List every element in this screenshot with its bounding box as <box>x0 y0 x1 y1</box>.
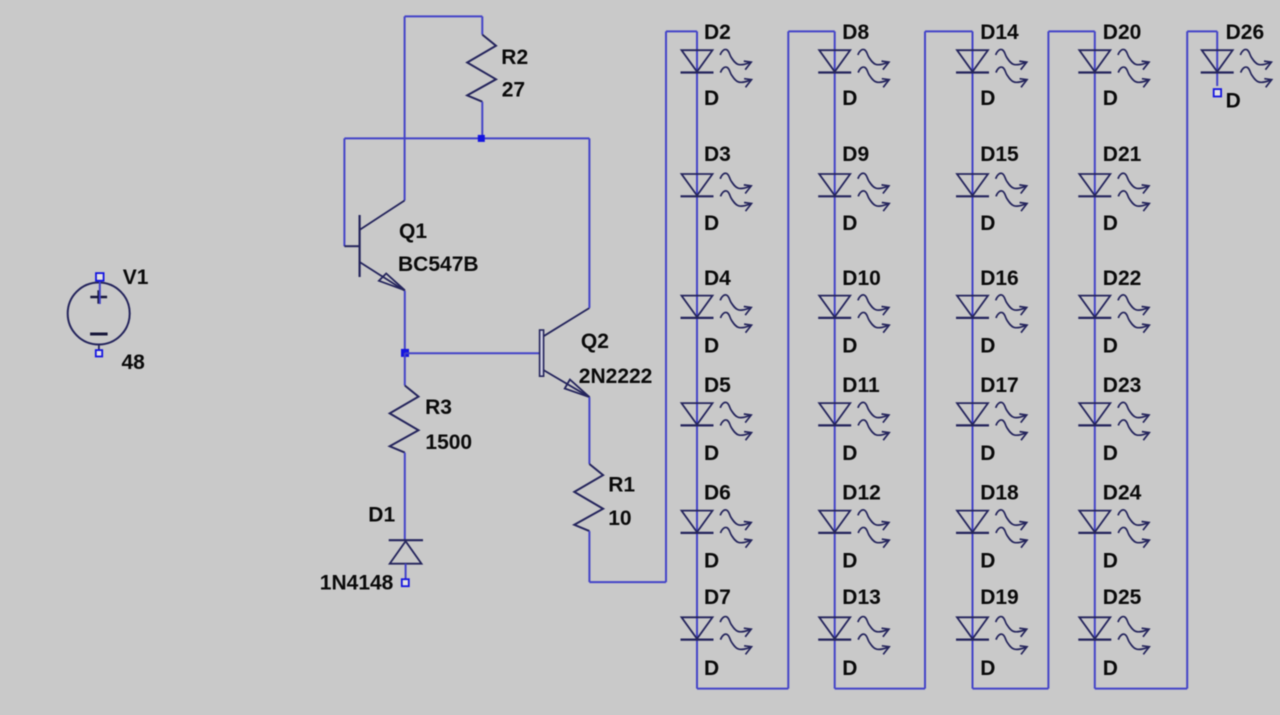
wire R3 to D1 <box>404 453 406 541</box>
svg-text:D: D <box>704 442 719 465</box>
LED D2 <box>681 49 752 87</box>
svg-text:D: D <box>842 212 857 235</box>
svg-text:D: D <box>704 657 719 680</box>
wire bottom column 1 to rail 2 <box>697 688 788 690</box>
LED D23 <box>1078 402 1149 440</box>
LED D22 <box>1078 295 1149 333</box>
wire Q2 collector riser <box>588 138 590 308</box>
terminal of D26 <box>1214 89 1221 96</box>
LED D13 <box>818 617 889 655</box>
junction at R2 bottom <box>478 135 485 142</box>
wire rail column 4 <box>1047 31 1049 688</box>
svg-text:D: D <box>704 87 719 110</box>
svg-text:D1: D1 <box>368 504 395 527</box>
svg-text:D21: D21 <box>1103 143 1142 166</box>
svg-text:Q2: Q2 <box>581 330 609 353</box>
svg-text:D20: D20 <box>1103 21 1142 44</box>
svg-text:10: 10 <box>608 507 631 530</box>
svg-text:D: D <box>1226 90 1241 113</box>
junction at Q1 emitter node <box>401 349 409 357</box>
wire LED chain column 3 <box>972 31 974 688</box>
svg-text:D19: D19 <box>980 586 1019 609</box>
wire R3 top lead <box>404 353 406 386</box>
svg-text:D13: D13 <box>842 586 881 609</box>
wire R2 bottom lead <box>481 102 483 139</box>
svg-text:D6: D6 <box>704 482 731 505</box>
wire bottom column 2 to rail 3 <box>835 688 925 690</box>
resistor R2 <box>467 35 496 102</box>
svg-text:D: D <box>704 334 719 357</box>
svg-text:D12: D12 <box>842 482 881 505</box>
svg-text:R1: R1 <box>608 474 635 497</box>
wire bottom column 4 to rail 5 <box>1095 688 1187 690</box>
LED D18 <box>956 510 1027 548</box>
terminal + of V1 <box>96 273 104 281</box>
LED D9 <box>818 173 889 211</box>
svg-text:D: D <box>842 334 857 357</box>
wire LED chain column 1 <box>696 31 698 688</box>
svg-text:D7: D7 <box>704 586 731 609</box>
svg-text:D: D <box>704 549 719 572</box>
svg-text:D14: D14 <box>980 21 1019 44</box>
wire bottom column 3 to rail 4 <box>973 688 1049 690</box>
svg-text:D: D <box>842 549 857 572</box>
LED D16 <box>956 295 1027 333</box>
LED D12 <box>818 510 889 548</box>
svg-text:D: D <box>1103 442 1118 465</box>
LED D15 <box>956 173 1027 211</box>
LED D21 <box>1078 173 1149 211</box>
svg-text:D: D <box>704 212 719 235</box>
wire rail column 3 <box>924 31 926 688</box>
svg-text:D: D <box>842 657 857 680</box>
LED D19 <box>956 617 1027 655</box>
svg-text:D: D <box>980 334 995 357</box>
svg-text:D: D <box>842 87 857 110</box>
terminal - of V1 <box>96 350 102 356</box>
terminal of D1 <box>402 579 409 586</box>
svg-text:D10: D10 <box>842 267 881 290</box>
voltage source V1 <box>68 277 130 350</box>
wire LED chain column 4 <box>1094 31 1096 688</box>
LED D14 <box>956 49 1027 87</box>
svg-text:Q1: Q1 <box>399 220 427 243</box>
wire top feed column 4 <box>1048 30 1094 32</box>
wire left drop to Q1 base <box>343 138 345 246</box>
svg-text:D: D <box>980 87 995 110</box>
svg-text:D16: D16 <box>980 267 1019 290</box>
svg-text:D26: D26 <box>1226 21 1265 44</box>
wire Q1 collector riser <box>404 16 406 200</box>
wire bus horizontal <box>344 137 589 139</box>
wire R2 top lead <box>481 16 483 34</box>
LED D10 <box>818 295 889 333</box>
svg-text:D: D <box>980 442 995 465</box>
svg-text:D2: D2 <box>704 21 731 44</box>
svg-text:27: 27 <box>502 79 525 102</box>
svg-text:D: D <box>980 549 995 572</box>
LED D5 <box>681 402 752 440</box>
svg-text:1500: 1500 <box>425 431 472 454</box>
LED D7 <box>681 617 752 655</box>
svg-text:D: D <box>980 657 995 680</box>
LED D24 <box>1078 510 1149 548</box>
svg-text:D5: D5 <box>704 374 731 397</box>
svg-text:D22: D22 <box>1103 267 1142 290</box>
wire LED chain column 2 <box>834 31 836 688</box>
svg-text:V1: V1 <box>123 266 149 289</box>
svg-text:D: D <box>980 212 995 235</box>
svg-text:D24: D24 <box>1103 482 1142 505</box>
LED D6 <box>681 510 752 548</box>
LED D3 <box>681 173 752 211</box>
svg-text:D15: D15 <box>980 143 1019 166</box>
svg-text:D9: D9 <box>842 143 869 166</box>
transistor Q2 <box>540 308 590 397</box>
wire top feed column 1 <box>666 30 697 32</box>
svg-text:D: D <box>1103 549 1118 572</box>
svg-text:D17: D17 <box>980 374 1019 397</box>
svg-text:48: 48 <box>122 351 146 374</box>
LED D4 <box>681 295 752 333</box>
resistor R1 <box>574 464 603 531</box>
wire R1 bottom lead <box>588 531 590 582</box>
wire top feed column 2 <box>788 30 834 32</box>
svg-text:R2: R2 <box>501 46 528 69</box>
svg-text:D: D <box>1103 334 1118 357</box>
svg-text:BC547B: BC547B <box>398 253 479 276</box>
wire top feed column 5 <box>1187 30 1217 32</box>
wire Q1 emitter drop <box>404 291 406 353</box>
wire bottom to LED column 1 <box>589 581 666 583</box>
transistor Q1 <box>344 201 405 291</box>
LED D26 <box>1201 49 1272 87</box>
svg-text:D11: D11 <box>842 374 880 397</box>
wire Q2 emitter to R1 <box>588 397 590 464</box>
wire rail column 5 <box>1186 31 1188 688</box>
LED D8 <box>818 49 889 87</box>
svg-text:D4: D4 <box>704 267 731 290</box>
resistor R3 <box>390 386 419 453</box>
svg-text:D: D <box>1103 657 1118 680</box>
LED D11 <box>818 402 889 440</box>
LED D17 <box>956 402 1027 440</box>
wire LED chain column 5 <box>1216 31 1218 86</box>
svg-text:D: D <box>1103 212 1118 235</box>
svg-text:D25: D25 <box>1103 586 1142 609</box>
svg-text:D: D <box>842 442 857 465</box>
LED D20 <box>1078 49 1149 87</box>
svg-text:D18: D18 <box>980 482 1019 505</box>
wire top feed column 3 <box>925 30 973 32</box>
LED D25 <box>1078 617 1149 655</box>
svg-text:1N4148: 1N4148 <box>320 572 394 595</box>
wire top loop horizontal <box>405 15 483 17</box>
diode D1 <box>389 540 423 579</box>
svg-text:D8: D8 <box>842 21 869 44</box>
svg-text:R3: R3 <box>425 396 452 419</box>
svg-text:D3: D3 <box>704 143 731 166</box>
svg-text:D: D <box>1103 87 1118 110</box>
wire node to Q2 base <box>405 352 540 354</box>
wire rail column 1 <box>665 31 667 582</box>
svg-text:2N2222: 2N2222 <box>579 365 653 388</box>
svg-text:D23: D23 <box>1103 374 1142 397</box>
wire rail column 2 <box>787 31 789 688</box>
